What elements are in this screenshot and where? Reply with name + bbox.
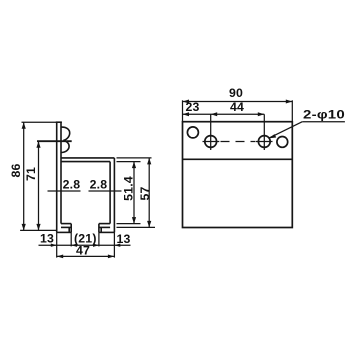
svg-text:90: 90 [229,86,243,100]
svg-text:2-φ10: 2-φ10 [303,108,345,122]
svg-text:47: 47 [76,244,90,258]
svg-text:57: 57 [138,186,152,200]
svg-text:2.8: 2.8 [90,178,108,192]
svg-text:23: 23 [185,100,199,114]
svg-text:51.4: 51.4 [122,176,136,201]
svg-text:86: 86 [9,163,23,177]
svg-text:44: 44 [230,100,244,114]
svg-text:13: 13 [116,232,130,246]
svg-text:71: 71 [24,167,38,181]
svg-text:2.8: 2.8 [63,178,81,192]
svg-text:13: 13 [40,232,54,246]
